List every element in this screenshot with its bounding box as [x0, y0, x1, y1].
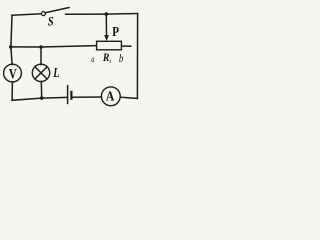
wire middle horizontal [11, 46, 96, 47]
wire battery to ammeter [72, 96, 101, 98]
node junction top [105, 12, 109, 16]
voltmeter V circle [4, 64, 22, 82]
battery short thick plate [70, 92, 72, 99]
wire bottom-left to battery [12, 97, 67, 100]
wire rheostat right terminal [122, 45, 131, 47]
wiper arrow stem [105, 14, 107, 36]
svg-text:1: 1 [109, 59, 112, 65]
node junction left [9, 45, 13, 49]
wire node P to top-right corner [106, 13, 137, 16]
svg-text:V: V [9, 66, 17, 82]
svg-text:S: S [48, 14, 54, 29]
wire voltmeter to bottom corner [11, 82, 13, 101]
svg-text:L: L [52, 66, 59, 81]
wire right side vertical [136, 14, 138, 99]
switch S [41, 12, 45, 16]
wire lamp branch upper [40, 47, 42, 65]
wire lamp bottom [40, 81, 42, 98]
wire top-left to switch [12, 14, 41, 15]
node junction lamp top [39, 45, 43, 49]
wire switch to node P [66, 13, 107, 15]
lamp L circle [32, 64, 49, 81]
svg-text:P: P [112, 24, 119, 39]
node junction lamp bottom [40, 96, 44, 100]
wire ammeter to bottom-right corner [120, 97, 137, 98]
svg-text:a: a [91, 55, 94, 65]
svg-text:A: A [106, 90, 115, 105]
wire left side vertical upper [11, 15, 12, 47]
resistor R1 (rheostat a-b) box [97, 41, 122, 50]
wire left vertical to voltmeter [11, 47, 12, 65]
wiper arrow head [104, 35, 109, 41]
lamp L cross [35, 67, 47, 79]
svg-text:b: b [119, 51, 124, 65]
ammeter A circle [101, 87, 120, 106]
battery long plate [67, 86, 69, 104]
